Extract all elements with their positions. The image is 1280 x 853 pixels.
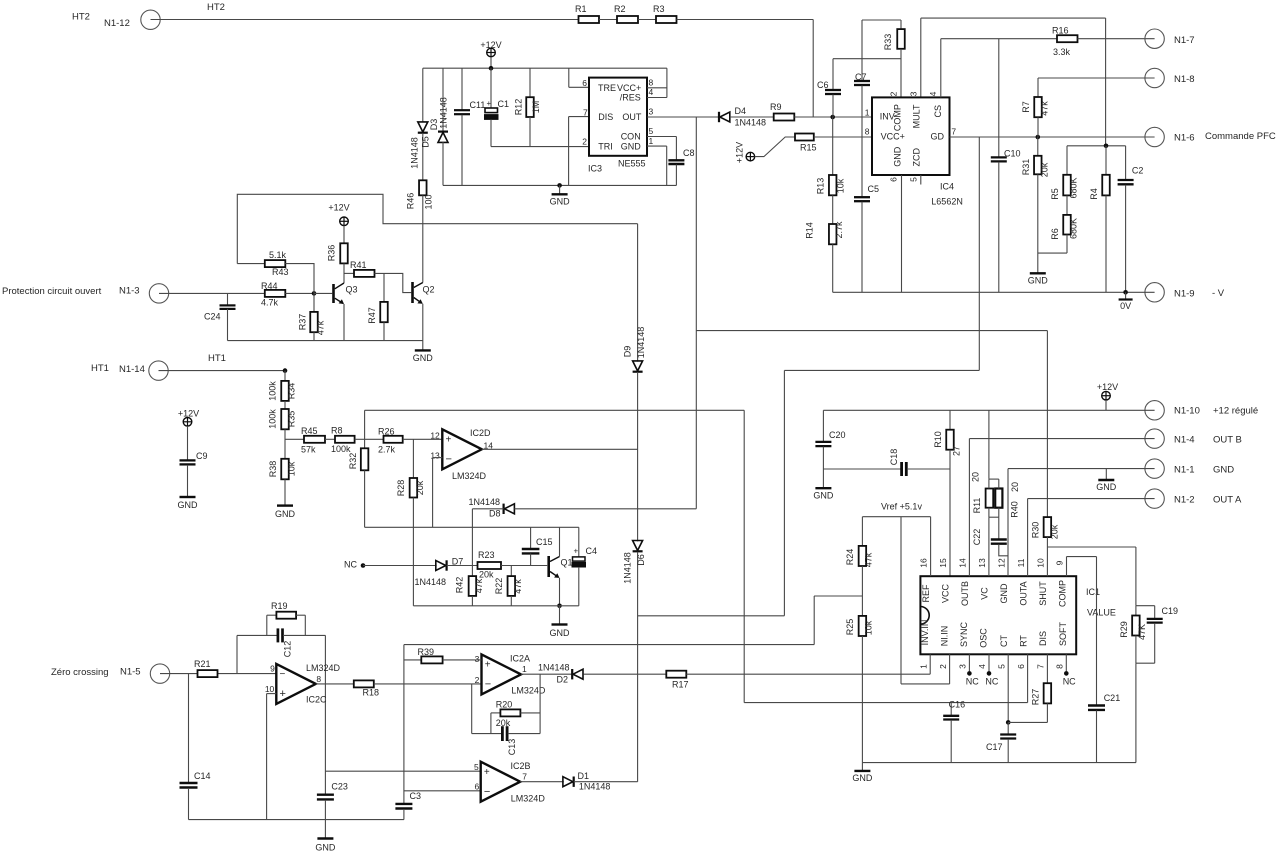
svg-text:R14: R14 — [805, 222, 815, 239]
svg-text:VC: VC — [980, 587, 990, 600]
svg-text:N1-1: N1-1 — [1174, 465, 1195, 476]
svg-text:10k: 10k — [287, 461, 297, 476]
svg-text:9: 9 — [1055, 560, 1065, 565]
svg-text:COMP: COMP — [893, 104, 903, 131]
svg-text:1N4148: 1N4148 — [636, 327, 646, 359]
svg-text:D3: D3 — [429, 119, 439, 131]
svg-text:20: 20 — [1010, 482, 1020, 492]
svg-text:2: 2 — [475, 675, 480, 685]
svg-text:4: 4 — [649, 87, 654, 97]
svg-text:+12V: +12V — [1097, 382, 1118, 392]
svg-text:GND: GND — [315, 843, 336, 853]
svg-text:- V: - V — [1212, 288, 1225, 299]
svg-text:47k: 47k — [863, 552, 873, 567]
svg-text:1M: 1M — [531, 101, 541, 114]
svg-text:C7: C7 — [855, 72, 867, 82]
svg-text:Zéro crossing: Zéro crossing — [51, 667, 109, 678]
svg-text:−: − — [484, 786, 490, 798]
svg-text:+: + — [485, 660, 491, 671]
svg-text:1N4148: 1N4148 — [622, 552, 632, 584]
svg-text:IC1: IC1 — [1086, 587, 1100, 597]
svg-text:C15: C15 — [536, 537, 553, 547]
svg-text:GND: GND — [275, 509, 296, 519]
svg-text:R33: R33 — [883, 34, 893, 51]
svg-text:GND: GND — [1028, 276, 1049, 286]
svg-text:C8: C8 — [683, 148, 695, 158]
svg-text:14: 14 — [958, 558, 968, 568]
svg-text:TRE: TRE — [598, 83, 616, 93]
svg-text:R47: R47 — [367, 307, 377, 324]
svg-text:GND: GND — [413, 353, 434, 363]
svg-text:R17: R17 — [672, 680, 689, 690]
svg-text:C10: C10 — [1004, 149, 1021, 159]
svg-text:R40: R40 — [1009, 501, 1019, 518]
svg-text:8: 8 — [649, 78, 654, 88]
svg-text:100k: 100k — [331, 444, 351, 454]
svg-text:SYNC: SYNC — [959, 622, 969, 648]
svg-text:IC2B: IC2B — [511, 761, 531, 771]
svg-text:7: 7 — [951, 127, 956, 137]
svg-text:GND: GND — [550, 628, 571, 638]
svg-text:7: 7 — [1036, 664, 1046, 669]
svg-text:C1: C1 — [498, 99, 510, 109]
svg-text:NI.IN: NI.IN — [940, 626, 950, 647]
svg-text:R6: R6 — [1050, 228, 1060, 240]
svg-text:R11: R11 — [972, 498, 982, 514]
svg-text:20k: 20k — [496, 718, 511, 728]
svg-text:10k: 10k — [863, 620, 873, 635]
svg-text:DIS: DIS — [1038, 631, 1048, 646]
svg-text:C16: C16 — [949, 700, 966, 710]
svg-text:6: 6 — [474, 782, 479, 792]
svg-text:OUTB: OUTB — [960, 581, 970, 606]
svg-text:5: 5 — [908, 177, 918, 182]
svg-text:R18: R18 — [363, 688, 380, 698]
svg-text:100k: 100k — [268, 409, 278, 429]
svg-text:C23: C23 — [331, 782, 348, 792]
svg-text:OSC: OSC — [979, 628, 989, 648]
svg-text:R43: R43 — [272, 267, 289, 277]
svg-text:C20: C20 — [829, 430, 846, 440]
svg-text:GND: GND — [1213, 465, 1234, 476]
svg-text:GND: GND — [550, 197, 571, 207]
svg-text:NC: NC — [966, 677, 979, 687]
svg-text:Commande PFC: Commande PFC — [1205, 131, 1276, 142]
svg-text:+12 régulé: +12 régulé — [1213, 406, 1258, 417]
svg-text:MULT: MULT — [912, 104, 922, 128]
svg-text:HT1: HT1 — [91, 363, 109, 374]
svg-text:47k: 47k — [316, 320, 326, 335]
svg-text:CT: CT — [999, 635, 1009, 647]
svg-text:100k: 100k — [268, 381, 278, 401]
svg-text:47K: 47K — [1137, 624, 1147, 640]
svg-text:LM324D: LM324D — [452, 471, 487, 481]
svg-text:13: 13 — [430, 451, 440, 461]
svg-text:C13: C13 — [507, 739, 517, 756]
svg-text:N1-3: N1-3 — [119, 286, 140, 297]
svg-text:R9: R9 — [770, 102, 782, 112]
svg-text:R7: R7 — [1021, 101, 1031, 113]
svg-text:R13: R13 — [816, 178, 826, 195]
svg-text:C6: C6 — [817, 80, 829, 90]
svg-text:N1-2: N1-2 — [1174, 495, 1195, 506]
svg-text:R25: R25 — [845, 619, 855, 636]
svg-text:R21: R21 — [194, 659, 211, 669]
svg-text:8: 8 — [865, 127, 870, 137]
svg-text:1: 1 — [649, 136, 654, 146]
svg-text:R19: R19 — [271, 601, 288, 611]
svg-text:20k: 20k — [1049, 524, 1059, 539]
svg-text:ZCD: ZCD — [912, 147, 922, 166]
svg-text:680K: 680K — [1069, 177, 1079, 198]
svg-text:R37: R37 — [298, 314, 308, 331]
svg-text:CS: CS — [933, 105, 943, 118]
svg-text:7: 7 — [522, 772, 527, 782]
svg-text:Vref +5.1v: Vref +5.1v — [881, 502, 922, 512]
svg-text:IC2A: IC2A — [510, 653, 530, 663]
svg-text:R34: R34 — [287, 383, 297, 400]
svg-text:GND: GND — [1096, 482, 1117, 492]
svg-text:N1-4: N1-4 — [1174, 435, 1195, 446]
svg-text:47k: 47k — [513, 579, 523, 594]
svg-text:R29: R29 — [1119, 621, 1129, 638]
svg-text:/RES: /RES — [620, 92, 641, 102]
svg-text:10: 10 — [265, 684, 275, 694]
svg-text:GND: GND — [852, 773, 873, 783]
svg-text:R23: R23 — [478, 550, 495, 560]
svg-text:NC: NC — [985, 677, 998, 687]
svg-text:5: 5 — [474, 762, 479, 772]
svg-text:R3: R3 — [653, 4, 665, 14]
svg-text:REF: REF — [921, 584, 931, 603]
svg-text:8: 8 — [1055, 664, 1065, 669]
svg-text:R35: R35 — [287, 411, 297, 428]
svg-text:C24: C24 — [204, 312, 221, 322]
svg-text:C14: C14 — [194, 771, 211, 781]
svg-text:R8: R8 — [331, 426, 343, 436]
svg-text:11: 11 — [1016, 558, 1026, 567]
svg-text:INV.IN: INV.IN — [920, 620, 930, 646]
svg-text:N1-5: N1-5 — [120, 667, 141, 678]
svg-text:2: 2 — [938, 664, 948, 669]
svg-text:GND: GND — [178, 500, 199, 510]
svg-text:R42: R42 — [455, 577, 465, 594]
svg-text:13: 13 — [977, 558, 987, 568]
svg-text:C4: C4 — [586, 546, 598, 556]
svg-text:1N4148: 1N4148 — [579, 781, 611, 791]
svg-text:C12: C12 — [282, 641, 292, 658]
svg-text:C11: C11 — [470, 100, 486, 110]
svg-text:R46: R46 — [406, 193, 416, 210]
svg-text:4: 4 — [977, 664, 987, 669]
svg-text:+12V: +12V — [735, 142, 745, 163]
svg-text:Q2: Q2 — [423, 285, 435, 295]
svg-text:C21: C21 — [1104, 693, 1121, 703]
svg-text:12: 12 — [997, 558, 1007, 568]
svg-text:GND: GND — [621, 141, 642, 151]
svg-text:1N4148: 1N4148 — [469, 497, 501, 507]
svg-text:+: + — [280, 688, 286, 700]
svg-text:R28: R28 — [396, 480, 406, 497]
svg-text:D6: D6 — [636, 554, 646, 566]
svg-text:9: 9 — [270, 664, 275, 674]
svg-text:GND: GND — [893, 146, 903, 167]
svg-text:R16: R16 — [1052, 26, 1069, 36]
svg-text:SOFT: SOFT — [1058, 621, 1068, 646]
svg-text:C22: C22 — [972, 529, 982, 546]
svg-text:N1-10: N1-10 — [1174, 406, 1200, 417]
svg-text:R24: R24 — [845, 549, 855, 566]
svg-text:N1-8: N1-8 — [1174, 74, 1195, 85]
svg-text:C5: C5 — [868, 184, 880, 194]
svg-text:R2: R2 — [614, 4, 626, 14]
svg-text:R22: R22 — [494, 578, 504, 595]
svg-text:−: − — [485, 679, 491, 691]
svg-text:R36: R36 — [327, 245, 337, 262]
svg-text:N1-6: N1-6 — [1174, 133, 1195, 144]
svg-text:R1: R1 — [575, 4, 587, 14]
svg-text:47k: 47k — [1040, 101, 1050, 116]
svg-text:LM324D: LM324D — [511, 793, 546, 803]
svg-text:NC: NC — [1063, 677, 1076, 687]
svg-text:0V: 0V — [1120, 301, 1131, 311]
svg-text:R27: R27 — [1030, 689, 1040, 706]
svg-text:3: 3 — [958, 664, 968, 669]
svg-text:R32: R32 — [348, 453, 358, 470]
svg-text:VALUE: VALUE — [1087, 608, 1116, 618]
svg-text:N1-7: N1-7 — [1174, 35, 1195, 46]
svg-text:12: 12 — [430, 431, 440, 441]
svg-text:R20: R20 — [496, 699, 513, 709]
svg-text:5: 5 — [649, 126, 654, 136]
svg-text:680K: 680K — [1069, 218, 1079, 239]
svg-text:VCC+: VCC+ — [881, 131, 905, 141]
svg-text:R10: R10 — [933, 431, 943, 448]
svg-text:R38: R38 — [268, 461, 278, 478]
svg-text:R12: R12 — [514, 99, 524, 116]
svg-text:1N4148: 1N4148 — [415, 577, 447, 587]
svg-text:OUT: OUT — [622, 112, 642, 122]
svg-text:C18: C18 — [889, 449, 899, 466]
svg-text:R30: R30 — [1030, 522, 1040, 539]
svg-text:1N4148: 1N4148 — [538, 663, 570, 673]
svg-text:N1-12: N1-12 — [104, 18, 130, 29]
svg-text:16: 16 — [919, 558, 929, 568]
svg-text:−: − — [446, 454, 452, 466]
svg-text:7: 7 — [583, 107, 588, 117]
svg-text:C2: C2 — [1132, 166, 1144, 176]
svg-text:R31: R31 — [1021, 159, 1031, 176]
svg-text:20: 20 — [970, 472, 980, 482]
svg-text:NE555: NE555 — [618, 158, 646, 168]
svg-text:5: 5 — [997, 664, 1007, 669]
svg-text:SHUT: SHUT — [1038, 581, 1048, 606]
svg-text:OUT A: OUT A — [1213, 495, 1242, 506]
svg-text:IC2D: IC2D — [470, 428, 491, 438]
svg-text:R15: R15 — [800, 143, 817, 153]
svg-text:R26: R26 — [378, 427, 395, 437]
svg-text:HT2: HT2 — [207, 2, 225, 13]
svg-text:IC3: IC3 — [588, 164, 602, 174]
svg-text:D4: D4 — [735, 106, 747, 116]
svg-text:C3: C3 — [410, 791, 422, 801]
svg-text:Q3: Q3 — [346, 285, 358, 295]
svg-text:D9: D9 — [623, 346, 633, 358]
svg-text:1: 1 — [522, 664, 527, 674]
svg-text:+: + — [574, 547, 579, 556]
svg-text:OUTA: OUTA — [1019, 581, 1029, 605]
svg-text:R5: R5 — [1050, 188, 1060, 200]
svg-text:C17: C17 — [986, 742, 1003, 752]
svg-text:20k: 20k — [1040, 162, 1050, 177]
svg-text:−: − — [280, 669, 286, 680]
svg-text:5.1k: 5.1k — [269, 250, 287, 260]
svg-text:15: 15 — [938, 558, 948, 568]
svg-text:D2: D2 — [557, 674, 569, 684]
svg-text:10: 10 — [1036, 558, 1046, 568]
svg-text:R44: R44 — [261, 281, 278, 291]
svg-text:CON: CON — [621, 132, 641, 142]
svg-text:VCC: VCC — [941, 584, 951, 604]
svg-text:20k: 20k — [415, 480, 425, 495]
svg-text:3: 3 — [649, 107, 654, 117]
svg-text:IC2C: IC2C — [306, 694, 327, 704]
svg-text:GD: GD — [931, 131, 945, 141]
svg-text:DIS: DIS — [598, 112, 613, 122]
svg-text:C19: C19 — [1162, 606, 1179, 616]
svg-text:TRI: TRI — [598, 141, 613, 151]
svg-text:Protection circuit ouvert: Protection circuit ouvert — [2, 286, 102, 297]
svg-text:LM324D: LM324D — [511, 685, 546, 695]
svg-text:3.3k: 3.3k — [1053, 47, 1071, 57]
svg-text:1N4148: 1N4148 — [410, 137, 420, 169]
svg-text:2: 2 — [889, 91, 899, 96]
svg-text:R4: R4 — [1089, 188, 1099, 200]
svg-text:6: 6 — [1016, 664, 1026, 669]
svg-text:HT1: HT1 — [208, 353, 226, 364]
svg-text:47k: 47k — [474, 578, 484, 593]
svg-text:R39: R39 — [418, 647, 435, 657]
svg-text:3: 3 — [909, 91, 919, 96]
svg-text:RT: RT — [1019, 635, 1029, 647]
svg-text:+: + — [446, 435, 452, 446]
svg-text:2.7k: 2.7k — [378, 445, 396, 455]
svg-text:1N4148: 1N4148 — [439, 97, 449, 129]
svg-text:8: 8 — [316, 674, 321, 684]
svg-text:+12V: +12V — [328, 203, 349, 213]
svg-text:2: 2 — [582, 136, 587, 146]
svg-text:10k: 10k — [836, 178, 846, 193]
svg-text:+: + — [484, 767, 490, 778]
svg-text:N1-9: N1-9 — [1174, 289, 1195, 300]
svg-text:6: 6 — [889, 177, 899, 182]
svg-text:IC4: IC4 — [940, 181, 954, 191]
svg-text:R45: R45 — [301, 426, 318, 436]
svg-text:Q1: Q1 — [561, 558, 573, 568]
svg-text:HT2: HT2 — [72, 12, 90, 23]
svg-text:57k: 57k — [301, 445, 316, 455]
svg-text:D8: D8 — [489, 509, 501, 519]
svg-text:4: 4 — [928, 91, 938, 96]
svg-text:3: 3 — [475, 654, 480, 664]
svg-text:1: 1 — [865, 108, 870, 118]
svg-text:R41: R41 — [350, 260, 367, 270]
svg-text:1: 1 — [919, 664, 929, 669]
svg-text:20k: 20k — [479, 570, 494, 580]
svg-text:D1: D1 — [578, 771, 590, 781]
svg-text:OUT B: OUT B — [1213, 435, 1242, 446]
svg-text:27: 27 — [951, 446, 961, 456]
svg-text:100: 100 — [424, 194, 434, 209]
svg-text:GND: GND — [813, 491, 834, 501]
svg-text:COMP: COMP — [1058, 580, 1068, 607]
svg-text:D5: D5 — [421, 136, 431, 148]
svg-text:6: 6 — [582, 78, 587, 88]
svg-text:N1-14: N1-14 — [119, 364, 145, 375]
svg-text:4.7k: 4.7k — [261, 298, 279, 308]
svg-text:1N4148: 1N4148 — [735, 117, 767, 127]
svg-text:L6562N: L6562N — [931, 196, 963, 206]
svg-text:GND: GND — [999, 583, 1009, 604]
svg-text:2.7k: 2.7k — [834, 221, 844, 239]
svg-text:NC: NC — [344, 560, 357, 570]
svg-text:C9: C9 — [196, 451, 208, 461]
svg-text:LM324D: LM324D — [306, 663, 341, 673]
